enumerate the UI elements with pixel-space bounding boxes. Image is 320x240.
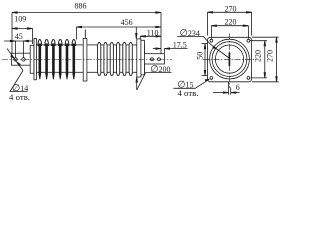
svg-text:17,5: 17,5 xyxy=(173,41,187,50)
dim 6 bottom xyxy=(213,82,240,95)
leader dia200 xyxy=(136,72,172,90)
dim 220 top xyxy=(211,25,248,39)
hole 2 right pad xyxy=(158,58,161,61)
bolt hole TL xyxy=(210,39,213,42)
svg-text:∅200: ∅200 xyxy=(150,64,170,75)
dim 45 xyxy=(4,40,33,57)
left tall washer xyxy=(34,38,36,79)
dim 110 xyxy=(140,36,161,39)
dim 886 xyxy=(12,12,161,54)
bolt hole TR xyxy=(247,39,250,42)
dia234 leader xyxy=(177,36,229,58)
fins group 1 xyxy=(38,39,76,79)
right tall washer xyxy=(137,39,141,77)
hole 1 left pad xyxy=(14,58,17,61)
bolt hole BR xyxy=(247,77,250,80)
central tall washer rib stud xyxy=(84,30,86,39)
hole 2 left pad xyxy=(22,58,25,61)
svg-text:6: 6 xyxy=(236,83,240,92)
left cap xyxy=(30,45,34,73)
fins group 2 xyxy=(98,43,133,76)
central tall washer rib xyxy=(83,39,87,82)
svg-text:270: 270 xyxy=(225,4,237,13)
bolt hole BL xyxy=(210,77,213,80)
inner circle dia200 xyxy=(212,42,247,77)
arrow down at collar top xyxy=(136,27,138,38)
front vertical centerline xyxy=(229,34,231,89)
leader dia15 xyxy=(174,79,210,88)
dim 109 xyxy=(12,28,33,44)
outer circle dia234 xyxy=(210,39,250,79)
svg-text:270: 270 xyxy=(265,50,274,62)
dim 50 left xyxy=(202,44,208,76)
svg-text:110: 110 xyxy=(147,28,159,37)
svg-text:109: 109 xyxy=(14,15,26,24)
hole 1 right pad xyxy=(151,58,154,61)
dim 456 xyxy=(76,26,161,39)
right terminal pad xyxy=(144,54,164,64)
svg-text:45: 45 xyxy=(15,32,23,41)
svg-text:456: 456 xyxy=(121,18,133,27)
svg-text:4 отв.: 4 отв. xyxy=(9,92,30,102)
svg-text:∅234: ∅234 xyxy=(180,28,200,39)
front horizontal centerline xyxy=(203,58,257,60)
porcelain core xyxy=(34,45,144,72)
svg-text:220: 220 xyxy=(225,18,237,27)
third circle xyxy=(215,45,243,73)
front view flange square xyxy=(208,37,252,82)
dim 220 right xyxy=(250,41,267,78)
svg-text:220: 220 xyxy=(254,50,263,62)
dim 270 top xyxy=(208,12,252,36)
svg-text:4 отв.: 4 отв. xyxy=(177,88,198,98)
right cap xyxy=(141,40,145,75)
svg-text:50: 50 xyxy=(196,52,205,60)
dim 17,5 xyxy=(153,48,188,53)
svg-text:886: 886 xyxy=(75,1,87,10)
side view centerline xyxy=(2,59,172,61)
left terminal pad xyxy=(11,53,30,65)
dim 270 right xyxy=(252,37,279,82)
leader dia14 xyxy=(7,49,28,92)
center thick bar xyxy=(228,53,230,67)
